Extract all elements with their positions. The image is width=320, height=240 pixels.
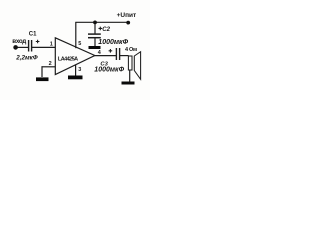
- svg-text:5: 5: [78, 41, 81, 47]
- svg-text:+Uпит: +Uпит: [117, 12, 137, 19]
- svg-text:1000мкФ: 1000мкФ: [94, 67, 124, 74]
- svg-text:2: 2: [49, 61, 52, 67]
- svg-text:1000мкФ: 1000мкФ: [98, 39, 128, 46]
- svg-text:C1: C1: [29, 32, 37, 38]
- svg-text:2,2мкФ: 2,2мкФ: [15, 55, 38, 62]
- svg-text:вход: вход: [12, 38, 26, 45]
- svg-text:4 Ом: 4 Ом: [125, 47, 137, 53]
- svg-text:LA4425A: LA4425A: [58, 56, 78, 62]
- svg-text:3: 3: [78, 67, 81, 73]
- svg-text:C2: C2: [102, 27, 110, 33]
- svg-text:1: 1: [50, 41, 53, 47]
